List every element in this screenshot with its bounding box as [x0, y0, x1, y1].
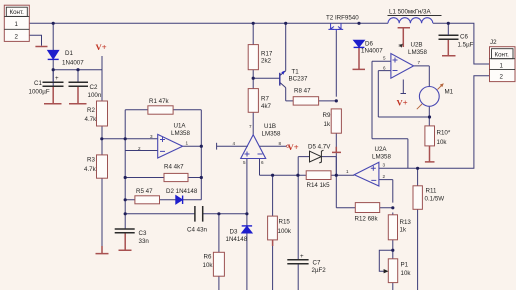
svg-text:2k2: 2k2 [261, 58, 272, 65]
svg-text:P1: P1 [401, 261, 409, 268]
svg-text:R9: R9 [323, 112, 331, 119]
svg-text:L1 500мкГн/3А: L1 500мкГн/3А [389, 8, 431, 15]
svg-text:R6: R6 [204, 253, 212, 260]
svg-text:3: 3 [383, 163, 386, 168]
svg-text:R14 1k5: R14 1k5 [307, 182, 331, 189]
svg-text:1000µF: 1000µF [29, 89, 50, 96]
svg-text:R4 4k7: R4 4k7 [164, 164, 184, 171]
svg-text:+: + [300, 253, 304, 260]
svg-text:2: 2 [383, 174, 386, 179]
svg-text:10k: 10k [437, 139, 448, 146]
svg-text:Конт.: Конт. [10, 9, 25, 16]
svg-text:R7: R7 [261, 95, 269, 102]
svg-text:3: 3 [150, 134, 153, 139]
svg-text:7: 7 [418, 60, 421, 65]
svg-text:M1: M1 [445, 88, 454, 95]
svg-text:10k: 10k [401, 270, 412, 277]
svg-text:LM358: LM358 [171, 130, 190, 137]
svg-text:V+: V+ [288, 142, 299, 152]
svg-text:1: 1 [186, 141, 189, 146]
svg-text:C4 43n: C4 43n [187, 227, 208, 234]
svg-text:D2 1N4148: D2 1N4148 [166, 188, 198, 195]
svg-text:1: 1 [15, 21, 19, 28]
svg-text:5: 5 [383, 56, 386, 61]
svg-text:100n: 100n [88, 92, 102, 99]
svg-text:1.5µF: 1.5µF [458, 41, 474, 48]
svg-text:LM358: LM358 [372, 153, 391, 160]
svg-text:1k: 1k [324, 121, 331, 128]
svg-text:V+: V+ [397, 98, 408, 108]
svg-text:J2: J2 [490, 39, 497, 46]
svg-text:D1: D1 [65, 50, 73, 57]
svg-text:R12 68k: R12 68k [355, 216, 379, 223]
svg-text:R10*: R10* [437, 129, 451, 136]
svg-text:100k: 100k [278, 228, 292, 235]
svg-text:U1A: U1A [174, 123, 187, 130]
svg-text:33n: 33n [139, 238, 150, 245]
svg-text:BC237: BC237 [289, 76, 308, 83]
svg-text:R13: R13 [400, 219, 412, 226]
svg-text:4.7k: 4.7k [84, 166, 97, 173]
svg-text:R3: R3 [87, 157, 95, 164]
svg-text:V+: V+ [96, 42, 107, 52]
svg-text:LM358: LM358 [262, 130, 281, 137]
svg-text:1N4007: 1N4007 [62, 60, 84, 67]
svg-text:1N4148: 1N4148 [226, 236, 248, 243]
svg-text:7: 7 [249, 124, 252, 129]
svg-text:R17: R17 [261, 50, 273, 57]
svg-text:1N4007: 1N4007 [361, 48, 383, 55]
svg-text:D5 4.7V: D5 4.7V [308, 143, 331, 150]
svg-text:2: 2 [15, 34, 19, 41]
svg-text:1k: 1k [400, 226, 407, 233]
svg-text:U2A: U2A [375, 146, 388, 153]
svg-text:R15: R15 [279, 219, 291, 226]
svg-text:R11: R11 [426, 187, 437, 194]
svg-text:4: 4 [233, 141, 236, 146]
svg-text:10k: 10k [203, 262, 214, 269]
svg-text:8: 8 [399, 43, 402, 48]
svg-text:2µF2: 2µF2 [312, 267, 327, 274]
svg-text:R2: R2 [87, 107, 95, 114]
svg-text:U1B: U1B [264, 123, 276, 130]
svg-text:T1: T1 [292, 68, 300, 75]
svg-text:6: 6 [383, 66, 386, 71]
svg-text:4k7: 4k7 [261, 103, 272, 110]
svg-text:4.7k: 4.7k [85, 116, 98, 123]
svg-text:C7: C7 [313, 259, 321, 266]
svg-text:R1 47k: R1 47k [149, 98, 170, 105]
svg-text:U2B: U2B [411, 41, 423, 48]
svg-text:5: 5 [243, 160, 246, 165]
svg-text:R8 47: R8 47 [294, 87, 311, 94]
svg-text:C6: C6 [460, 33, 468, 40]
svg-text:Конт.: Конт. [495, 51, 510, 58]
svg-text:0.1/5W: 0.1/5W [425, 195, 445, 202]
svg-text:T2 IRF9540: T2 IRF9540 [326, 15, 359, 22]
svg-text:C2: C2 [90, 84, 98, 91]
svg-text:C3: C3 [139, 230, 147, 237]
svg-text:8: 8 [279, 141, 282, 146]
svg-text:R5 47: R5 47 [136, 188, 153, 195]
svg-text:LM358: LM358 [408, 49, 427, 56]
svg-text:2: 2 [500, 73, 504, 80]
svg-text:6: 6 [261, 160, 264, 165]
svg-text:2: 2 [138, 146, 141, 151]
svg-text:+: + [55, 75, 59, 82]
svg-text:C1: C1 [34, 80, 42, 87]
svg-text:D3: D3 [230, 229, 238, 236]
svg-text:1: 1 [346, 169, 349, 174]
svg-text:1: 1 [500, 62, 504, 69]
